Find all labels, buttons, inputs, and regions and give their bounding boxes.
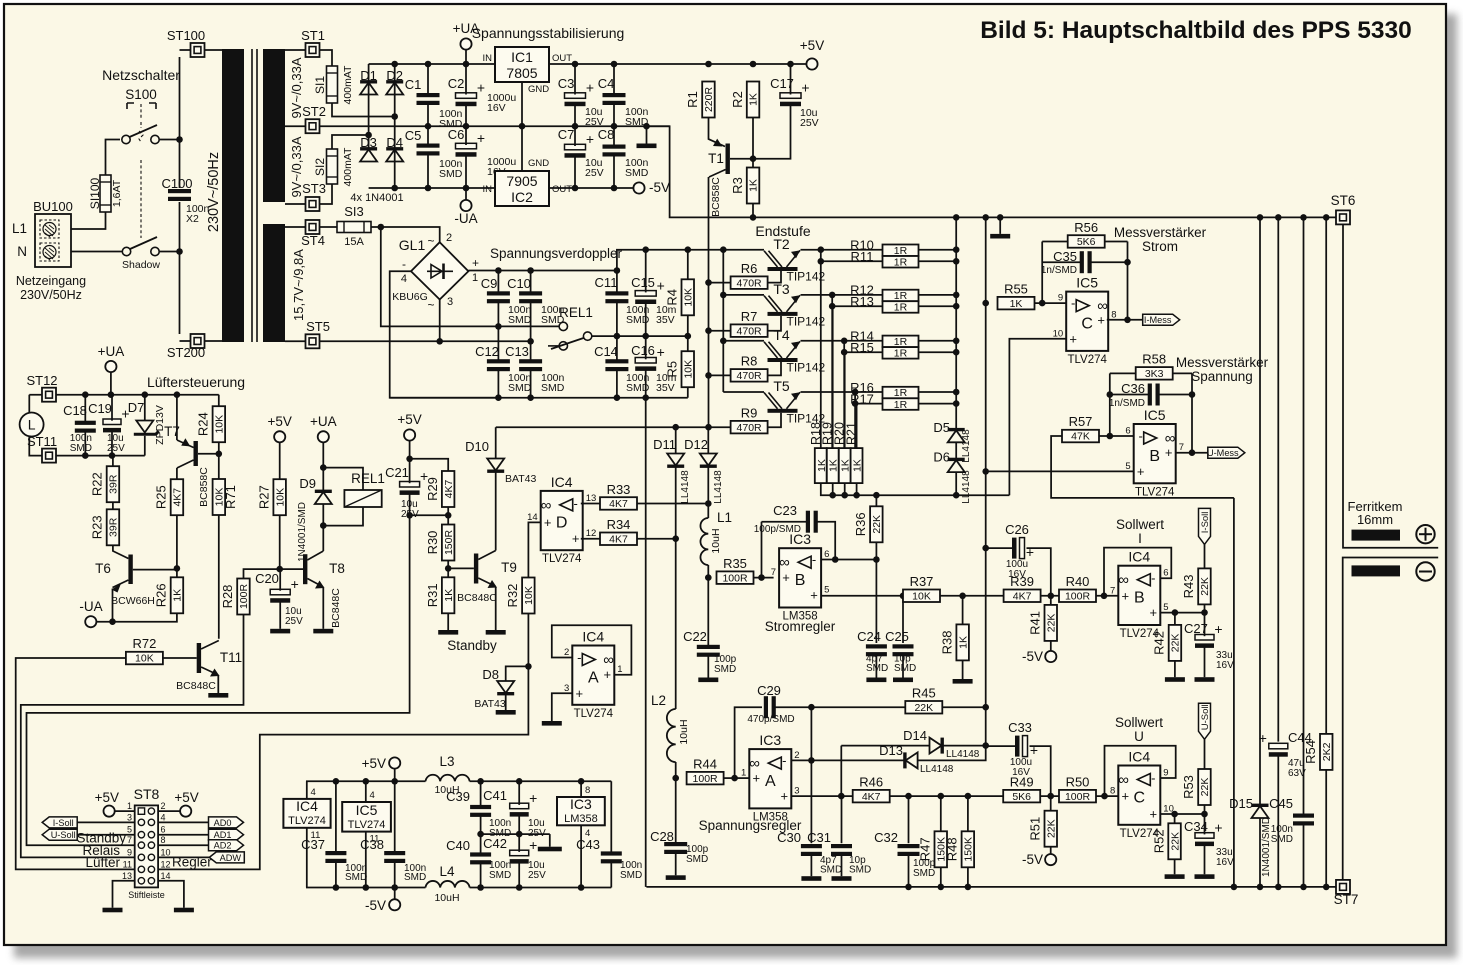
wire — [810, 760, 812, 843]
capacitor C8 — [603, 145, 626, 157]
junction R8 left — [705, 372, 712, 379]
svg-text:C34: C34 — [1184, 819, 1208, 834]
svg-text:3: 3 — [794, 786, 799, 797]
wire — [709, 330, 731, 332]
svg-text:ST11: ST11 — [27, 434, 57, 449]
wire — [855, 391, 882, 393]
wire — [723, 340, 764, 342]
wire — [179, 57, 181, 188]
inductor L4 — [426, 881, 470, 888]
wire — [176, 395, 178, 440]
svg-text:T11: T11 — [220, 650, 242, 665]
resistor R16 — [850, 380, 918, 399]
svg-text:B: B — [795, 572, 806, 589]
svg-text:100R: 100R — [693, 773, 719, 785]
junction C42 bottom — [516, 884, 523, 891]
svg-text:+: + — [291, 576, 299, 592]
svg-text:SI2: SI2 — [313, 158, 327, 176]
svg-text:C7: C7 — [558, 127, 575, 142]
wire — [986, 470, 1134, 472]
wire — [1040, 795, 1059, 797]
svg-text:-: - — [1139, 428, 1143, 443]
terminal plus output — [1416, 525, 1434, 543]
wire — [1105, 746, 1176, 796]
junction C4 bottom — [611, 123, 618, 130]
svg-text:R42: R42 — [1152, 631, 1167, 655]
junction C5 bottom — [425, 185, 432, 192]
svg-text:8: 8 — [161, 835, 166, 845]
ground C20 — [270, 629, 290, 634]
terminal ST5 — [306, 334, 320, 348]
capacitor C2 — [456, 80, 486, 107]
svg-text:ST2: ST2 — [302, 104, 326, 119]
svg-text:R3: R3 — [730, 177, 745, 194]
capacitor C40 — [470, 852, 491, 864]
wire — [1096, 595, 1119, 597]
wire — [527, 614, 529, 667]
wire — [967, 867, 969, 887]
wire — [1027, 548, 1051, 596]
svg-text:22K: 22K — [1199, 577, 1211, 596]
junction C9 top — [495, 267, 502, 274]
junction C32 top — [905, 793, 912, 800]
wire — [112, 589, 114, 622]
svg-text:BAT43: BAT43 — [505, 473, 536, 485]
svg-text:25V: 25V — [585, 167, 604, 179]
svg-text:+UA: +UA — [310, 414, 337, 429]
junction T1 base R2 R3 — [750, 155, 757, 162]
wire — [112, 456, 114, 467]
svg-text:+: + — [1150, 605, 1158, 620]
svg-text:C31: C31 — [807, 830, 831, 845]
svg-text:R46: R46 — [859, 774, 883, 789]
svg-text:TLV274: TLV274 — [348, 819, 386, 831]
wire — [1204, 805, 1206, 814]
junction bus ground — [997, 214, 1004, 221]
junction U feedback rail — [1231, 884, 1238, 891]
flag U-Mess — [1207, 447, 1245, 458]
wire — [645, 250, 647, 293]
ground T8 — [313, 629, 333, 634]
svg-text:U-Mess: U-Mess — [1207, 448, 1239, 458]
capacitor C22 — [697, 645, 720, 657]
svg-text:+: + — [1214, 819, 1222, 835]
flag U-Soll — [1199, 703, 1211, 739]
resistor R7 — [731, 309, 768, 338]
wire — [918, 746, 986, 760]
svg-text:D5: D5 — [933, 420, 950, 435]
wire — [986, 547, 1012, 549]
wire — [735, 777, 750, 779]
ground C28 — [666, 875, 686, 880]
wire — [322, 526, 324, 551]
wire — [841, 855, 843, 877]
svg-text:4K7: 4K7 — [609, 498, 628, 510]
terminal +UA relay — [318, 431, 329, 442]
wire — [480, 863, 482, 888]
wire — [616, 271, 618, 293]
wire — [1109, 373, 1111, 436]
svg-text:+: + — [1122, 588, 1130, 603]
capacitor C15 — [635, 277, 665, 304]
svg-text:14: 14 — [161, 871, 171, 881]
wire — [675, 762, 677, 778]
wire — [113, 545, 128, 558]
wire — [28, 395, 30, 413]
svg-text:LL4148: LL4148 — [680, 470, 691, 504]
svg-text:R38: R38 — [939, 630, 954, 654]
wire — [332, 103, 395, 117]
transformer secondary winding bar lower — [263, 224, 285, 342]
transistor T11 BC848C — [176, 641, 242, 693]
svg-text:L1: L1 — [12, 221, 27, 236]
junction R17 left — [852, 400, 859, 407]
junction D6 bottom — [953, 492, 960, 499]
svg-text:BC858C: BC858C — [710, 177, 722, 217]
resistor R47 — [918, 831, 948, 867]
svg-text:R43: R43 — [1181, 574, 1196, 598]
wire — [1204, 814, 1206, 834]
svg-text:LL4148: LL4148 — [961, 429, 972, 463]
connector ST8 Stiftleiste — [122, 801, 171, 887]
wire — [707, 504, 709, 519]
wire — [394, 888, 396, 900]
svg-text:39R: 39R — [108, 517, 120, 537]
svg-text:C10: C10 — [507, 276, 531, 291]
svg-text:R50: R50 — [1066, 774, 1090, 789]
junction T4 emitter — [841, 338, 848, 345]
resistor R37 — [903, 574, 940, 603]
junction R46 left C31 — [838, 793, 845, 800]
svg-text:+: + — [810, 588, 818, 603]
op-amp IC4 unit A — [564, 629, 623, 720]
svg-text:ST12: ST12 — [26, 373, 57, 388]
ferrite core bar minus — [1352, 565, 1401, 576]
svg-text:D2: D2 — [386, 68, 403, 83]
svg-text:+: + — [529, 790, 537, 806]
svg-text:C36: C36 — [1121, 381, 1145, 396]
svg-text:7: 7 — [771, 567, 776, 578]
wire — [530, 302, 532, 342]
svg-text:1K: 1K — [172, 589, 184, 602]
svg-text:LL4148: LL4148 — [961, 470, 972, 504]
junction IC5 pin4 — [363, 778, 370, 785]
resistor R22 — [90, 466, 120, 502]
junction output column — [953, 214, 960, 221]
svg-text:SMD: SMD — [541, 382, 565, 394]
wire — [306, 828, 308, 888]
wire — [844, 340, 882, 342]
svg-text:T9: T9 — [501, 560, 517, 575]
resistor R1 — [685, 82, 715, 118]
wire — [427, 104, 429, 127]
wire — [1204, 544, 1206, 568]
svg-text:+: + — [544, 515, 552, 530]
wire — [322, 468, 324, 492]
junction C35 right — [1124, 259, 1131, 266]
wire — [481, 833, 550, 835]
wire — [110, 372, 112, 395]
svg-text:+: + — [1097, 312, 1105, 327]
svg-text:R30: R30 — [425, 531, 440, 555]
wire — [617, 250, 723, 271]
svg-text:R36: R36 — [853, 512, 868, 536]
svg-text:35V: 35V — [656, 382, 675, 394]
wire — [205, 340, 223, 342]
svg-text:SMD: SMD — [714, 664, 736, 675]
svg-text:470R: 470R — [737, 370, 763, 382]
svg-text:R47: R47 — [918, 837, 933, 861]
wire — [724, 777, 735, 779]
svg-text:8: 8 — [1110, 786, 1115, 797]
wire — [159, 251, 180, 253]
svg-text:C40: C40 — [446, 838, 470, 853]
junction +5V C38 — [391, 778, 398, 785]
wire — [176, 468, 178, 480]
wire — [470, 780, 612, 782]
capacitor C20 — [270, 576, 299, 603]
wire — [198, 453, 219, 455]
wire — [365, 781, 367, 802]
svg-text:D4: D4 — [386, 135, 403, 150]
wire — [1174, 859, 1176, 874]
wire — [811, 706, 905, 708]
svg-text:D8: D8 — [482, 667, 499, 682]
junction D2 top — [391, 61, 398, 68]
wire — [875, 495, 877, 506]
wire — [505, 693, 507, 710]
svg-text:1: 1 — [741, 768, 746, 779]
wire — [967, 796, 969, 831]
IC block IC4 supply — [283, 798, 330, 828]
svg-text:T7: T7 — [164, 424, 180, 439]
wire — [322, 588, 324, 629]
wire — [335, 862, 337, 888]
svg-text:25V: 25V — [528, 870, 546, 881]
wire — [111, 395, 113, 421]
resistor R13 — [850, 294, 918, 313]
resistor R38 — [939, 624, 969, 660]
wire — [549, 63, 709, 65]
capacitor C26 — [1012, 538, 1034, 561]
wire — [1051, 436, 1234, 498]
junction C17 top — [787, 61, 794, 68]
svg-text:13: 13 — [586, 493, 597, 504]
ground bus bar — [990, 234, 1010, 239]
svg-text:GL1: GL1 — [399, 237, 426, 253]
junction R10 right — [953, 246, 960, 253]
svg-text:ST7: ST7 — [1334, 892, 1359, 907]
svg-text:+: + — [576, 686, 584, 701]
wire — [552, 625, 632, 675]
junction IC3 pin8 — [578, 778, 585, 785]
svg-text:100R: 100R — [238, 584, 250, 610]
wire — [218, 442, 220, 454]
ground T9 — [486, 630, 506, 635]
junction T1 collector R9 — [705, 424, 712, 431]
resistor R17 — [850, 391, 918, 411]
junction C1 bottom — [425, 123, 432, 130]
svg-text:+: + — [586, 131, 594, 147]
wire — [574, 64, 576, 95]
svg-text:470R: 470R — [737, 277, 763, 289]
svg-text:7: 7 — [1179, 442, 1184, 453]
transistor T3 TIP142 — [764, 281, 826, 329]
svg-text:10uH: 10uH — [678, 719, 690, 744]
wire — [985, 707, 987, 746]
svg-text:C35: C35 — [1053, 249, 1077, 264]
svg-text:+: + — [801, 80, 809, 96]
wire — [115, 810, 135, 812]
wire — [610, 862, 612, 888]
wire — [646, 126, 648, 143]
svg-text:10K: 10K — [912, 591, 931, 603]
flag I-Mess — [1143, 314, 1180, 325]
wire — [497, 370, 499, 398]
svg-text:AD1: AD1 — [214, 830, 232, 840]
wire — [521, 126, 523, 171]
svg-text:10K: 10K — [214, 488, 226, 507]
capacitor C4 — [603, 93, 626, 105]
wire — [709, 63, 807, 65]
wire — [707, 655, 709, 677]
svg-text:R49: R49 — [1010, 774, 1034, 789]
svg-text:C26: C26 — [1005, 522, 1029, 537]
wire — [1259, 818, 1261, 887]
wire — [761, 522, 763, 578]
junction C37 top — [333, 778, 340, 785]
svg-text:+: + — [781, 789, 789, 804]
svg-text:REL1: REL1 — [351, 471, 385, 486]
svg-text:C18: C18 — [63, 403, 87, 418]
junction R3 bottom — [750, 214, 757, 221]
wire — [112, 502, 114, 509]
junction R7 left — [705, 327, 712, 334]
ground C22 — [698, 678, 718, 683]
wire — [955, 217, 957, 429]
wire — [855, 403, 882, 405]
junction IC1 GND — [519, 123, 526, 130]
wire — [369, 187, 495, 189]
svg-text:C24: C24 — [857, 629, 881, 644]
wire — [158, 810, 180, 812]
wire — [753, 104, 791, 159]
svg-text:7805: 7805 — [506, 65, 537, 81]
svg-text:BC848C: BC848C — [330, 588, 342, 628]
junction R43 bottom C27 — [1201, 609, 1208, 616]
wire — [940, 796, 942, 831]
wire — [521, 82, 523, 126]
svg-text:11: 11 — [123, 859, 132, 869]
wire — [919, 391, 957, 393]
svg-text:-: - — [1151, 571, 1155, 586]
wire — [495, 472, 497, 551]
junction D9 top — [320, 464, 327, 471]
wire — [428, 125, 670, 127]
wire — [1259, 217, 1261, 804]
wire — [205, 49, 223, 51]
wire — [218, 454, 220, 479]
svg-text:LL4148: LL4148 — [946, 749, 980, 760]
wire — [613, 64, 615, 95]
svg-text:+: + — [477, 80, 485, 96]
svg-text:D11: D11 — [653, 437, 676, 452]
svg-text:Netzeingang: Netzeingang — [16, 274, 86, 288]
capacitor C13 — [519, 359, 542, 371]
svg-text:∞: ∞ — [779, 554, 790, 571]
svg-text:R22: R22 — [90, 472, 105, 496]
wire — [646, 886, 1336, 888]
wire — [306, 780, 426, 782]
wire — [616, 336, 618, 361]
wire — [856, 404, 858, 449]
wire — [574, 126, 576, 146]
junction C14 top — [614, 333, 621, 340]
svg-text:C: C — [1081, 315, 1093, 332]
wire — [409, 459, 411, 483]
svg-text:R27: R27 — [256, 485, 271, 509]
junction R11 left — [818, 258, 825, 265]
wire — [144, 436, 146, 456]
wire — [21, 615, 244, 858]
zener diode D7 ZPD13V — [128, 400, 166, 445]
svg-text:A: A — [765, 773, 776, 790]
svg-text:6: 6 — [1125, 425, 1130, 436]
wire — [409, 493, 411, 515]
wire — [821, 249, 883, 251]
capacitor C14 — [605, 359, 628, 371]
wire — [647, 126, 753, 217]
wire — [1204, 844, 1206, 874]
terminal ST4 — [306, 220, 320, 234]
svg-text:R4: R4 — [665, 289, 680, 306]
svg-text:U-Soll: U-Soll — [51, 830, 76, 840]
svg-text:7905: 7905 — [506, 173, 537, 189]
junction R25 R26 T6 base — [174, 565, 181, 572]
wire — [955, 472, 957, 495]
wire — [390, 271, 499, 397]
svg-text:3: 3 — [127, 812, 132, 822]
svg-text:C39: C39 — [446, 789, 470, 804]
wire — [322, 442, 324, 467]
wire — [530, 370, 532, 398]
svg-text:TLV274: TLV274 — [288, 815, 326, 827]
wire — [1050, 796, 1052, 811]
capacitor C10 — [519, 291, 542, 303]
terminal +5V power — [389, 757, 400, 768]
junction R53 bottom C34 — [1201, 811, 1208, 818]
svg-text:L2: L2 — [651, 693, 666, 708]
svg-text:TLV274: TLV274 — [1067, 354, 1107, 366]
wire — [530, 341, 532, 360]
svg-text:C38: C38 — [360, 837, 384, 852]
wire — [752, 159, 754, 168]
wire — [613, 126, 615, 146]
wire — [368, 64, 370, 149]
svg-text:-: - — [812, 552, 816, 567]
wire — [841, 796, 843, 843]
terminal -5V — [633, 182, 644, 193]
svg-text:100p/SMD: 100p/SMD — [754, 524, 801, 535]
transistor T6 BCW66H — [95, 555, 155, 608]
junction R48 rail — [965, 884, 972, 891]
svg-text:4K7: 4K7 — [1013, 591, 1032, 603]
junction R36 bottom C24 — [873, 556, 880, 563]
ground C24 — [866, 678, 886, 683]
IC U2 7905 — [495, 171, 549, 206]
junction R52 top — [1171, 811, 1178, 818]
svg-text:470R: 470R — [737, 422, 763, 434]
